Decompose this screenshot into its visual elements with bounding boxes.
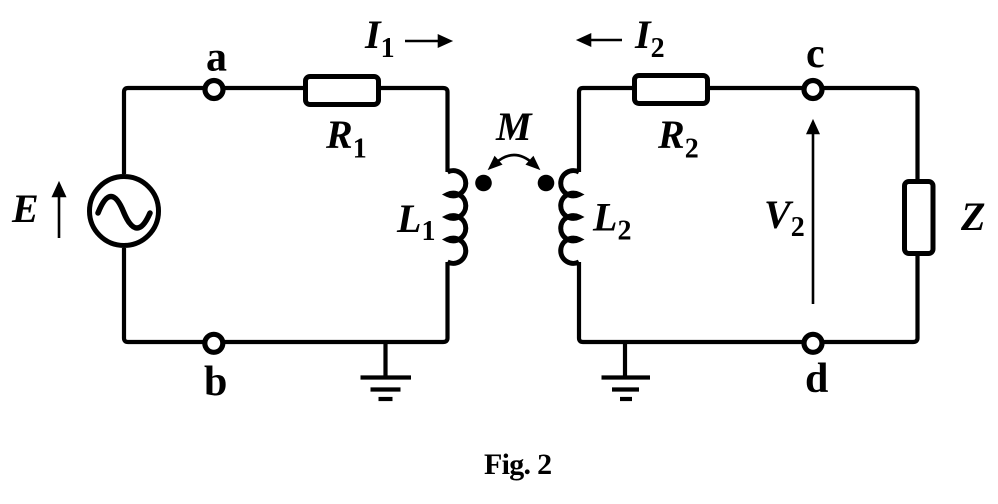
coupling dot left	[475, 175, 492, 192]
svg-text:Fig. 2: Fig. 2	[484, 448, 551, 481]
impedance Z	[905, 182, 934, 254]
wire left-loop bottom	[124, 248, 448, 342]
svg-text:M: M	[495, 104, 533, 149]
svg-text:I1: I1	[364, 12, 395, 64]
wire left-loop top	[124, 88, 304, 174]
svg-text:d: d	[805, 356, 828, 402]
arrow for E	[54, 184, 65, 238]
svg-text:Z: Z	[960, 194, 985, 239]
svg-text:E: E	[11, 186, 39, 231]
mutual coupling arrow	[490, 155, 538, 168]
wire right-loop bottom	[579, 256, 918, 342]
AC source E	[90, 177, 159, 246]
svg-text:R2: R2	[657, 112, 699, 165]
wire right-loop left side	[579, 88, 635, 172]
svg-text:L2: L2	[592, 195, 631, 247]
inductor L2 coil	[561, 171, 579, 264]
wire R2 to node c to corner down	[709, 88, 918, 179]
inductor L1 coil	[448, 171, 466, 264]
node b	[205, 334, 223, 352]
ground left	[361, 342, 412, 399]
svg-text:L1: L1	[396, 196, 435, 247]
svg-text:a: a	[206, 35, 227, 81]
coupling dot right	[538, 175, 555, 192]
svg-text:R1: R1	[325, 112, 367, 165]
node c	[804, 81, 822, 99]
resistor R2	[635, 76, 708, 104]
svg-text:I2: I2	[634, 12, 665, 64]
svg-text:b: b	[204, 359, 227, 405]
ground right	[602, 342, 651, 399]
svg-text:c: c	[806, 31, 825, 77]
resistor R1	[306, 77, 379, 105]
node d	[804, 334, 822, 352]
wire R1 to corner and down to L1	[380, 88, 448, 172]
svg-text:V2: V2	[764, 192, 805, 243]
node a	[205, 81, 223, 99]
